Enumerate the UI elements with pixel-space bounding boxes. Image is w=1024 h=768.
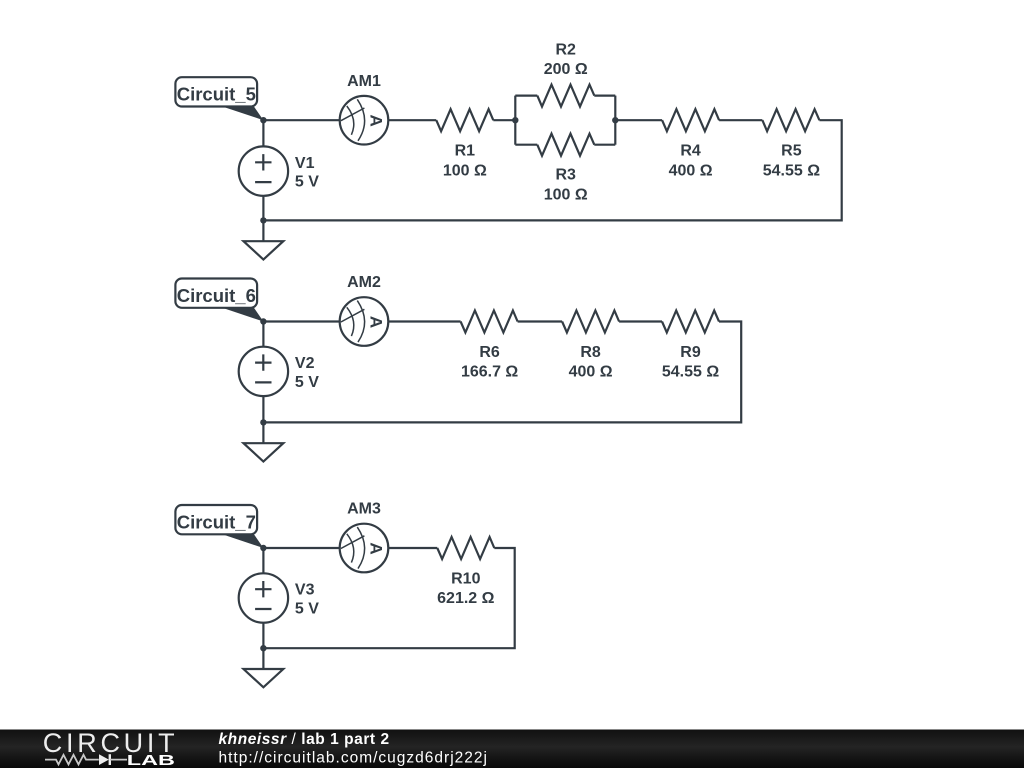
wire V3 top — [262, 548, 264, 573]
wire R8 to R9 — [619, 320, 662, 322]
wire to ground 3 — [262, 648, 264, 669]
svg-text:100 Ω: 100 Ω — [443, 162, 487, 179]
wire V1 bottom — [262, 196, 264, 221]
wire R9 to right edge and down and back (return loop circuit 2) — [263, 322, 741, 423]
wire AM2 to R6 — [389, 320, 461, 322]
resistor R3 — [537, 134, 594, 156]
wire R4 to R5 — [719, 119, 762, 121]
node A2 junction dot — [260, 318, 266, 324]
ground symbol circuit 1 — [244, 241, 284, 259]
wire V2 bottom — [262, 396, 264, 422]
junction dot left of parallel pair — [512, 117, 518, 123]
svg-text:R4: R4 — [680, 143, 701, 160]
junction dot bottom of V2 — [260, 419, 266, 425]
resistor R2 — [537, 85, 594, 107]
CircuitLab logo diode glyph — [99, 754, 127, 765]
node label Circuit_6 — [175, 279, 263, 322]
svg-text:AM2: AM2 — [347, 274, 381, 291]
value label V2 5 V — [295, 355, 319, 391]
wire top branch left — [515, 94, 537, 96]
svg-text:http://circuitlab.com/cugzd6dr: http://circuitlab.com/cugzd6drj222j — [219, 750, 488, 767]
resistor R4 — [662, 109, 719, 131]
value label R5 54.55 Ω — [763, 143, 820, 180]
value label R4 400 Ω — [669, 143, 713, 180]
wire node to AM1 — [263, 119, 339, 121]
wire junction to R4 — [615, 119, 662, 121]
svg-text:166.7 Ω: 166.7 Ω — [461, 364, 518, 381]
svg-text:100 Ω: 100 Ω — [544, 186, 588, 203]
voltage source V1 — [239, 146, 288, 195]
wire V3 bottom — [262, 623, 264, 649]
svg-text:621.2 Ω: 621.2 Ω — [437, 590, 494, 607]
svg-text:R6: R6 — [479, 344, 500, 361]
svg-text:V2: V2 — [295, 355, 315, 372]
junction dot bottom of V1 — [260, 217, 266, 223]
wire bottom branch right — [594, 144, 615, 146]
voltage source V3 — [239, 573, 288, 622]
wire to ground 2 — [262, 422, 264, 443]
resistor R8 — [562, 311, 619, 333]
wire R5 to right edge and down and back (return loop circuit 1) — [263, 120, 841, 220]
value label V1 5 V — [295, 155, 319, 191]
svg-text:R5: R5 — [781, 143, 802, 160]
svg-text:V1: V1 — [295, 155, 315, 172]
svg-text:54.55 Ω: 54.55 Ω — [763, 162, 820, 179]
wire R6 to R8 — [518, 320, 563, 322]
svg-text:400 Ω: 400 Ω — [669, 162, 713, 179]
value label R9 54.55 Ω — [662, 344, 719, 381]
resistor R9 — [662, 311, 719, 333]
wire right parallel vertical — [614, 96, 616, 145]
node label Circuit_5 — [175, 77, 263, 120]
value label R2 200 Ω — [544, 41, 588, 78]
junction dot bottom of V3 — [260, 645, 266, 651]
wire to ground 1 — [262, 220, 264, 241]
node A3 junction dot — [260, 545, 266, 551]
value label R6 166.7 Ω — [461, 344, 518, 381]
node A1 junction dot — [260, 117, 266, 123]
svg-text:V3: V3 — [295, 582, 315, 599]
svg-text:R10: R10 — [451, 570, 480, 587]
wire R1 to left junction — [493, 119, 515, 121]
ammeter AM1 — [340, 96, 389, 145]
resistor R10 — [437, 537, 494, 559]
svg-text:R3: R3 — [555, 167, 576, 184]
svg-text:5 V: 5 V — [295, 601, 319, 618]
svg-text:R9: R9 — [680, 344, 701, 361]
wire top branch right — [594, 94, 615, 96]
svg-text:R2: R2 — [555, 41, 576, 58]
wire node to AM2 — [263, 320, 339, 322]
wire R10 to right edge and down and back (return loop circuit 3) — [263, 548, 514, 648]
svg-text:khneissr / lab 1 part 2: khneissr / lab 1 part 2 — [219, 731, 390, 748]
svg-text:A: A — [367, 542, 386, 554]
resistor R6 — [461, 311, 518, 333]
wire bottom branch left — [515, 144, 537, 146]
resistor R5 — [762, 109, 819, 131]
svg-text:AM3: AM3 — [347, 501, 381, 518]
svg-text:AM1: AM1 — [347, 73, 381, 90]
wire V1 top — [262, 120, 264, 146]
svg-text:A: A — [367, 115, 386, 127]
ground symbol circuit 3 — [244, 669, 284, 687]
svg-text:Circuit_7: Circuit_7 — [177, 511, 256, 532]
junction dot right of parallel pair — [612, 117, 618, 123]
ammeter AM3 — [340, 524, 389, 573]
value label R8 400 Ω — [569, 344, 613, 381]
svg-text:Circuit_6: Circuit_6 — [177, 285, 256, 306]
wire node to AM3 — [263, 547, 339, 549]
svg-text:5 V: 5 V — [295, 374, 319, 391]
resistor R1 — [436, 109, 493, 131]
value label R1 100 Ω — [443, 143, 487, 180]
svg-text:A: A — [367, 316, 386, 328]
ammeter AM2 — [340, 297, 389, 346]
svg-text:400 Ω: 400 Ω — [569, 364, 613, 381]
CircuitLab logo resistor glyph — [45, 755, 99, 765]
svg-text:Circuit_5: Circuit_5 — [177, 84, 256, 105]
wire left parallel vertical — [514, 96, 516, 145]
wire AM1 to R1 — [389, 119, 437, 121]
voltage source V2 — [239, 347, 288, 396]
value label V3 5 V — [295, 582, 319, 618]
svg-text:200 Ω: 200 Ω — [544, 61, 588, 78]
wire V2 top — [262, 322, 264, 347]
value label R10 621.2 Ω — [437, 570, 494, 607]
footer bar — [0, 730, 1024, 768]
value label R3 100 Ω — [544, 167, 588, 204]
wire AM3 to R10 — [389, 547, 438, 549]
svg-text:54.55 Ω: 54.55 Ω — [662, 364, 719, 381]
svg-text:5 V: 5 V — [295, 174, 319, 191]
svg-text:LAB: LAB — [127, 752, 175, 768]
svg-text:R1: R1 — [455, 143, 476, 160]
ground symbol circuit 2 — [244, 443, 284, 461]
svg-text:R8: R8 — [580, 344, 601, 361]
node label Circuit_7 — [175, 505, 263, 548]
